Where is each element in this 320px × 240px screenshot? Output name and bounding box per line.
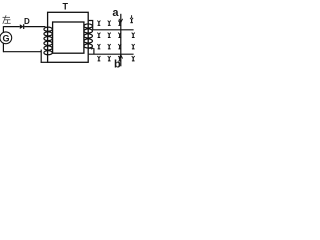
line a-b <box>120 14 122 67</box>
svg-text:a: a <box>112 7 119 19</box>
wire: secondary top lead <box>89 21 93 30</box>
pole row4 col3 <box>118 56 121 61</box>
pole row3 col2 <box>108 44 111 49</box>
pole row3 col4 <box>132 44 135 49</box>
wire: down to generator <box>2 26 4 33</box>
wire: bottom horizontal from G <box>3 51 41 53</box>
pole row4 col4 <box>132 56 135 61</box>
wire: generator bottom down <box>2 43 4 52</box>
pole row1 col1 <box>97 21 100 26</box>
svg-text:D: D <box>24 17 30 26</box>
pole row1 col3 <box>118 21 121 26</box>
pole row4 col2 <box>108 56 111 61</box>
wire: bottom to transformer <box>41 61 48 63</box>
wire: G top to diode <box>3 26 19 28</box>
pole row2 col4 <box>132 33 135 38</box>
pole row1 col2 <box>108 21 111 26</box>
svg-text:T: T <box>63 1 69 11</box>
current arrow on secondary bottom lead <box>89 47 94 50</box>
diode D <box>20 24 24 29</box>
label 左 (hand-drawn strokes) <box>3 15 11 24</box>
transformer T core outer <box>48 12 89 62</box>
pole row4 col1 <box>97 56 100 61</box>
bottom transmission line <box>89 53 134 55</box>
secondary winding (right coil) <box>84 24 93 48</box>
pole row3 col1 <box>97 44 100 49</box>
pole row2 col1 <box>97 33 100 38</box>
wire: return vertical <box>40 50 42 63</box>
pole row2 col2 <box>108 33 111 38</box>
top transmission line <box>93 29 134 31</box>
wire: secondary bottom lead down <box>93 48 95 54</box>
pole row3 col3 <box>118 44 121 49</box>
pole row1 col4 <box>130 15 133 23</box>
wire: diode to primary winding <box>24 26 45 28</box>
generator G <box>0 32 12 44</box>
arrowhead up (near b) <box>119 55 123 59</box>
svg-text:G: G <box>2 33 9 43</box>
pole row2 col3 <box>118 33 121 38</box>
transformer T core inner <box>53 22 84 53</box>
arrowhead down (near a) <box>119 19 123 23</box>
primary winding (left coil) <box>44 27 52 55</box>
